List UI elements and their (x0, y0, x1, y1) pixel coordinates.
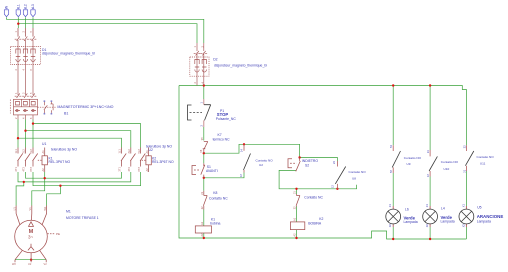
svg-text:95: 95 (200, 137, 204, 140)
svg-text:A1: A1 (200, 221, 204, 225)
svg-text:22: 22 (293, 206, 297, 209)
svg-text:S2: S2 (305, 163, 309, 167)
svg-text:13: 13 (239, 174, 243, 177)
svg-text:5L3: 5L3 (29, 149, 33, 154)
svg-text:B1: B1 (64, 111, 68, 115)
svg-text:5: 5 (29, 92, 33, 94)
svg-text:L2: L2 (24, 4, 28, 8)
svg-text:L6: L6 (405, 207, 409, 211)
svg-text:4T2: 4T2 (22, 167, 26, 172)
svg-text:W2: W2 (12, 262, 16, 266)
svg-text:2: 2 (14, 117, 18, 119)
svg-text:A1: A1 (293, 217, 297, 221)
svg-text:5L3: 5L3 (137, 149, 141, 154)
svg-text:U9: U9 (407, 162, 411, 166)
svg-text:Contatto NO: Contatto NO (441, 160, 459, 164)
svg-text:1: 1 (200, 102, 204, 104)
svg-text:Contatto NC: Contatto NC (304, 196, 323, 200)
svg-text:14: 14 (240, 149, 244, 152)
svg-text:L3: L3 (31, 4, 35, 8)
svg-text:bobina: bobina (210, 221, 220, 225)
svg-text:U10: U10 (444, 167, 450, 171)
svg-text:X2: X2 (425, 224, 429, 228)
svg-text:6T3: 6T3 (137, 167, 141, 172)
svg-text:3L2: 3L2 (22, 149, 26, 154)
svg-text:U1: U1 (42, 142, 46, 146)
svg-text:AVANTI: AVANTI (206, 169, 218, 173)
svg-text:2T1: 2T1 (14, 167, 18, 172)
svg-text:Pulsante_NC: Pulsante_NC (216, 117, 237, 121)
svg-text:L1: L1 (16, 4, 20, 8)
svg-text:X2: X2 (388, 224, 392, 228)
svg-text:21: 21 (200, 191, 204, 194)
svg-text:X1: X1 (425, 204, 429, 208)
svg-text:K8: K8 (213, 191, 217, 195)
svg-text:54: 54 (389, 145, 393, 148)
svg-text:13: 13 (426, 174, 430, 177)
svg-text:U11: U11 (480, 162, 486, 166)
svg-text:U2: U2 (149, 148, 153, 152)
svg-text:1: 1 (14, 31, 18, 33)
svg-text:Lampada: Lampada (477, 219, 491, 223)
svg-text:V2: V2 (44, 262, 48, 266)
svg-text:2: 2 (200, 125, 204, 127)
svg-text:W1: W1 (43, 206, 47, 210)
svg-text:22: 22 (200, 206, 204, 209)
svg-text:3L2: 3L2 (127, 149, 131, 154)
svg-text:U5: U5 (477, 206, 481, 210)
svg-text:MOTORE TRIFASE 1: MOTORE TRIFASE 1 (66, 216, 99, 220)
svg-text:BOBINA: BOBINA (308, 222, 322, 226)
svg-text:U2: U2 (28, 262, 32, 266)
svg-text:6: 6 (29, 69, 33, 71)
svg-text:M1: M1 (66, 210, 71, 214)
svg-text:N: N (5, 5, 9, 8)
svg-text:Contatto NO: Contatto NO (477, 155, 495, 159)
svg-text:MAGNETOTERMIC 3P+1NC+1NO: MAGNETOTERMIC 3P+1NC+1NO (57, 105, 113, 109)
svg-text:disjoncteur_magneto_thermique_: disjoncteur_magneto_thermique_bi (214, 63, 267, 67)
svg-text:A2: A2 (200, 233, 204, 237)
svg-text:3~: 3~ (28, 235, 34, 240)
svg-text:A2: A2 (293, 233, 297, 237)
svg-text:Contatto NO: Contatto NO (349, 170, 367, 174)
svg-text:Contatto NC: Contatto NC (209, 197, 228, 201)
svg-text:termico NC: termico NC (213, 137, 231, 141)
svg-text:V1: V1 (28, 207, 32, 211)
svg-text:4T2: 4T2 (127, 167, 131, 172)
svg-text:22: 22 (462, 145, 466, 148)
svg-text:1: 1 (193, 46, 197, 48)
svg-text:PE: PE (56, 232, 60, 236)
svg-text:X2: X2 (461, 224, 465, 228)
svg-text:14: 14 (426, 150, 430, 153)
svg-text:A2: A2 (145, 168, 149, 172)
svg-text:4: 4 (22, 117, 26, 119)
svg-text:Contatto NO: Contatto NO (256, 159, 274, 163)
svg-text:Contatto NO: Contatto NO (404, 156, 422, 160)
svg-text:21: 21 (293, 191, 297, 194)
svg-text:U2: U2 (259, 163, 263, 167)
svg-text:1L1: 1L1 (14, 149, 18, 154)
svg-text:U1: U1 (12, 207, 16, 211)
svg-text:X1: X1 (388, 204, 392, 208)
svg-text:REL.3P6T NO: REL.3P6T NO (49, 160, 71, 164)
svg-text:4: 4 (22, 69, 26, 71)
svg-text:3: 3 (22, 92, 26, 94)
svg-text:disjoncteur_magneto_thermique_: disjoncteur_magneto_thermique_tri (42, 52, 95, 56)
svg-text:24: 24 (332, 161, 336, 164)
svg-text:L4: L4 (441, 206, 445, 210)
svg-text:3: 3 (22, 31, 26, 33)
svg-text:ARANCIONE: ARANCIONE (477, 214, 504, 219)
svg-text:X1: X1 (461, 204, 465, 208)
svg-text:teleruttore 3p NO: teleruttore 3p NO (51, 148, 77, 152)
svg-text:2T1: 2T1 (118, 167, 122, 172)
svg-text:53: 53 (389, 170, 393, 173)
svg-text:5: 5 (29, 31, 33, 33)
svg-text:Lampada: Lampada (404, 220, 418, 224)
svg-text:13: 13 (330, 185, 334, 188)
svg-text:96: 96 (199, 149, 203, 152)
svg-text:U8: U8 (352, 177, 356, 181)
svg-text:D2: D2 (213, 58, 217, 62)
svg-text:Lampada: Lampada (441, 219, 455, 223)
svg-text:1L1: 1L1 (118, 149, 122, 154)
svg-text:6T3: 6T3 (29, 167, 33, 172)
svg-text:REL.3P6T NO: REL.3P6T NO (152, 160, 174, 164)
svg-text:6: 6 (29, 117, 33, 119)
svg-text:1: 1 (14, 92, 18, 94)
svg-text:2: 2 (14, 69, 18, 71)
svg-text:2: 2 (193, 82, 197, 84)
svg-text:K2: K2 (319, 217, 323, 221)
